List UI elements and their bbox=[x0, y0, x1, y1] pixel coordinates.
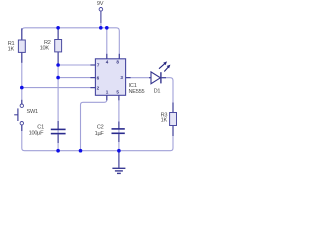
svg-text:C2: C2 bbox=[97, 125, 104, 131]
node bottom-ground bbox=[117, 149, 121, 153]
resistor R2 bbox=[40, 28, 62, 65]
wire SW1 bottom down to bottom rail, along bottom, up R3 column to LED bbox=[22, 78, 173, 151]
switch SW1 bbox=[14, 100, 38, 131]
svg-text:SW1: SW1 bbox=[27, 109, 39, 115]
wire pin2 bbox=[22, 87, 96, 89]
svg-text:D1: D1 bbox=[154, 89, 161, 95]
resistor R1 bbox=[8, 28, 26, 63]
LED D1 bbox=[149, 61, 170, 94]
svg-text:1µF: 1µF bbox=[95, 131, 105, 137]
power terminal 9V bbox=[97, 1, 104, 23]
svg-text:1K: 1K bbox=[161, 117, 168, 123]
wire pin6 bbox=[58, 77, 95, 79]
wire pin4 drop bbox=[106, 28, 108, 59]
wire pin1 jog to bottom rail bbox=[81, 95, 107, 150]
svg-text:3: 3 bbox=[120, 75, 123, 80]
svg-text:100µF: 100µF bbox=[29, 130, 45, 136]
svg-text:8: 8 bbox=[116, 60, 119, 65]
capacitor C1 bbox=[29, 121, 66, 143]
svg-text:6: 6 bbox=[97, 75, 100, 80]
wire R2/C1 column bbox=[57, 28, 59, 151]
wire left branch R1 column down to SW1 bbox=[21, 29, 23, 104]
node rail-9V bbox=[99, 26, 103, 30]
node pin7 tap bbox=[56, 63, 60, 67]
op-amp/timer IC1 NE555 bbox=[90, 54, 144, 101]
node rail-pin4 bbox=[105, 26, 109, 30]
wire pin7 bbox=[58, 64, 95, 66]
node junction dots bbox=[20, 26, 121, 153]
svg-text:4: 4 bbox=[106, 60, 109, 65]
wire pin5 / C2 column bbox=[118, 95, 120, 150]
svg-text:7: 7 bbox=[97, 63, 100, 68]
node rail-R2 bbox=[56, 26, 60, 30]
svg-text:1: 1 bbox=[106, 90, 109, 95]
capacitor C2 bbox=[95, 122, 125, 143]
ground bbox=[112, 152, 125, 173]
svg-text:5: 5 bbox=[116, 90, 119, 95]
node bottom-C1 bbox=[56, 149, 60, 153]
svg-text:NE555: NE555 bbox=[129, 89, 145, 95]
node bottom-pin1 bbox=[79, 149, 83, 153]
wire top rail V+ bbox=[22, 28, 120, 59]
svg-text:1K: 1K bbox=[8, 46, 15, 52]
svg-text:10K: 10K bbox=[40, 46, 50, 52]
node pin6 tap bbox=[56, 76, 60, 80]
svg-text:2: 2 bbox=[97, 86, 100, 91]
svg-text:9V: 9V bbox=[97, 1, 104, 7]
resistor R3 bbox=[161, 103, 177, 137]
node pin2-R1 bbox=[20, 86, 24, 90]
wire 9V stem bbox=[100, 12, 102, 28]
